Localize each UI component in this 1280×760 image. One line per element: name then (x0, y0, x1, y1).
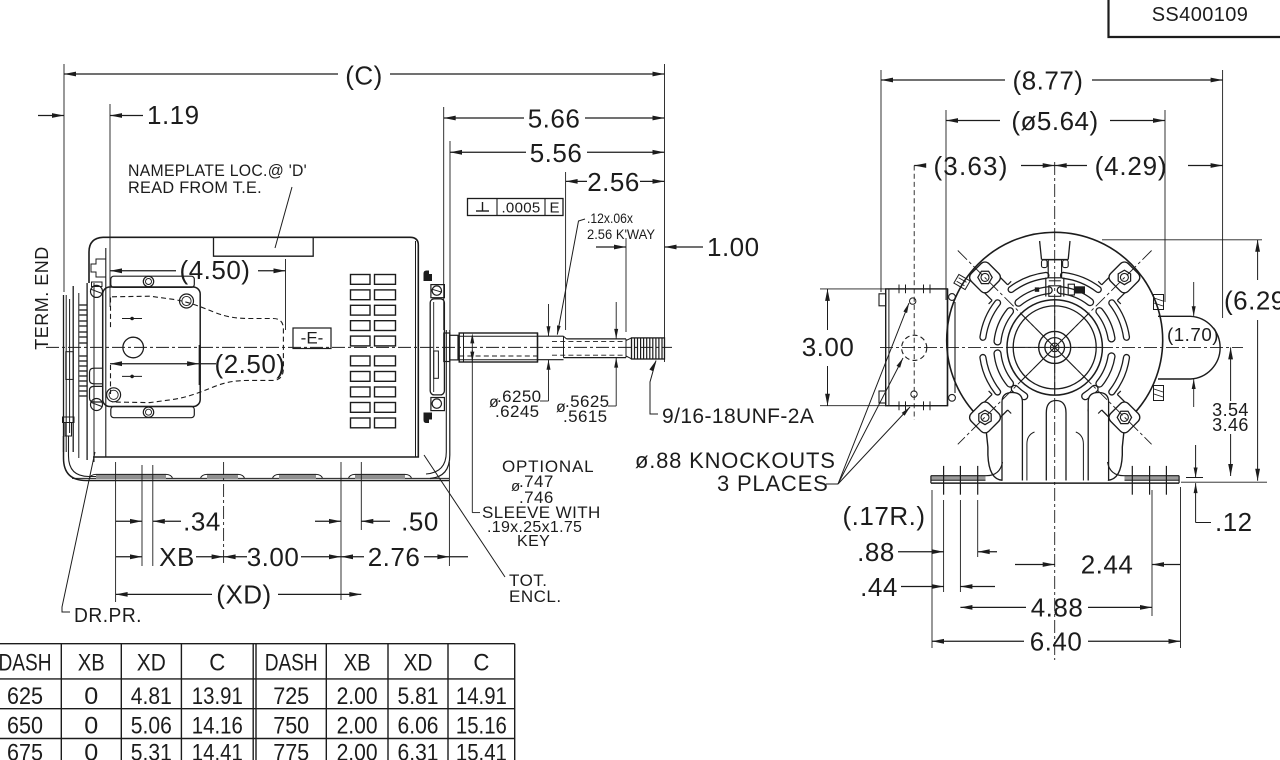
svg-text:0: 0 (84, 713, 98, 740)
svg-text:4.88: 4.88 (1031, 593, 1084, 623)
knockout dashed circle (902, 335, 927, 360)
diagonal centerlines (end view) (880, 162, 1243, 660)
dimension 2.56 (566, 167, 665, 197)
left flat seam of stator band (948, 289, 956, 406)
svg-text:3.00: 3.00 (247, 542, 300, 572)
svg-text:.50: .50 (401, 507, 439, 537)
leader TOT. ENCL. (424, 455, 562, 606)
horizontal centerline of shaft/body (46, 346, 672, 348)
svg-text:-E-: -E- (301, 329, 324, 348)
leader DR.PR. (62, 452, 142, 627)
svg-text:5.31: 5.31 (131, 740, 172, 760)
svg-text:E: E (549, 200, 559, 217)
svg-text:XB: XB (344, 650, 371, 677)
dimension (6.29) (1102, 240, 1280, 482)
svg-text:(C): (C) (345, 61, 383, 91)
band seam screws near boss (1154, 295, 1164, 310)
svg-text:2.56: 2.56 (587, 167, 640, 197)
svg-text:750: 750 (273, 713, 309, 740)
svg-text:4.81: 4.81 (131, 683, 172, 710)
svg-text:15.41: 15.41 (456, 740, 507, 760)
nameplate tab on body top (214, 238, 314, 257)
dimension 1.00 (596, 232, 760, 262)
svg-text:NAMEPLATE LOC.@ 'D': NAMEPLATE LOC.@ 'D' (128, 162, 307, 180)
svg-text:(8.77): (8.77) (1013, 66, 1084, 96)
svg-text:ENCL.: ENCL. (509, 587, 562, 606)
motor body outline (side view) (89, 237, 418, 457)
conduit box (end view) (879, 166, 948, 421)
svg-text:2.00: 2.00 (337, 740, 378, 760)
corner bolt tabs with hex bolts and radial fingers (954, 260, 1142, 435)
svg-text:0: 0 (84, 683, 98, 710)
svg-text:6.31: 6.31 (398, 740, 439, 760)
bottom dims left view: .50 (315, 462, 439, 600)
bearing hub circles (1007, 300, 1102, 395)
base bottom line (931, 482, 1179, 484)
dimension .44 (860, 500, 995, 602)
svg-text:14.16: 14.16 (192, 713, 243, 740)
thread callout 9/16-18UNF-2A (649, 361, 814, 429)
svg-text:(ø5.64): (ø5.64) (1011, 106, 1098, 136)
svg-text:13.91: 13.91 (192, 683, 243, 710)
conduit box (side view) with cover (103, 276, 284, 418)
vent ring bands (end view) (983, 275, 1127, 410)
svg-text:DASH: DASH (265, 650, 318, 677)
svg-text:725: 725 (273, 683, 309, 710)
dimension .88 (857, 500, 997, 592)
bottom dims left view: XB / 3.00 / 2.76 (116, 462, 468, 572)
GD&T feature control frame (468, 199, 564, 217)
svg-text:2.00: 2.00 (337, 683, 378, 710)
svg-text:3.00: 3.00 (802, 332, 855, 362)
feet plates (end view) (931, 462, 1179, 495)
dimension (4.50) (110, 255, 286, 285)
svg-text:.34: .34 (183, 507, 221, 537)
cradle base (side view) (63, 330, 450, 481)
terminal end flange stack (left end) (64, 259, 106, 462)
NAMEPLATE note with leader (128, 162, 307, 248)
keyway note .12x.06x 2.56 K'WAY with leader (557, 210, 656, 335)
svg-text:2.76: 2.76 (368, 542, 421, 572)
svg-text:0: 0 (84, 740, 98, 760)
dimension 5.56 (450, 138, 665, 168)
conduit hole circle (123, 337, 144, 358)
svg-text:3 PLACES: 3 PLACES (717, 471, 829, 496)
svg-text:1.19: 1.19 (147, 100, 200, 130)
shaft keyway section (563, 336, 565, 357)
svg-text:3.46: 3.46 (1212, 415, 1249, 435)
extension lines (left view) (64, 64, 665, 385)
top lifting slot and grease plug (1035, 237, 1085, 297)
svg-text:XD: XD (137, 650, 166, 677)
shaft dia dim arrows and labels (470, 302, 618, 513)
svg-text:2.00: 2.00 (337, 713, 378, 740)
svg-text:.6245: .6245 (495, 402, 540, 421)
shaft transition section (537, 333, 539, 362)
svg-text:(1.70): (1.70) (1167, 325, 1219, 345)
center marks in box (122, 318, 142, 320)
threaded end 9/16-18UNF-2A (625, 339, 627, 358)
svg-text:14.41: 14.41 (192, 740, 243, 760)
svg-text:READ FROM T.E.: READ FROM T.E. (128, 179, 262, 197)
dimension (C) (64, 61, 665, 91)
svg-text:XB: XB (78, 650, 105, 677)
svg-text:.12: .12 (1215, 507, 1253, 537)
shaft hub steps (444, 333, 458, 362)
svg-text:(.17R.): (.17R.) (843, 501, 926, 531)
dimension (3.63) and (4.29) (914, 151, 1222, 181)
box knockout centerline (dashed vertical) (913, 166, 915, 421)
dimension 1.19 (38, 100, 200, 130)
svg-text:.12x.06x: .12x.06x (587, 210, 633, 226)
dimension (1.70) (1167, 282, 1219, 407)
vent slot grid (side view) (351, 275, 396, 428)
svg-text:ø.88 KNOCKOUTS: ø.88 KNOCKOUTS (635, 448, 836, 473)
svg-text:(4.29): (4.29) (1095, 151, 1168, 181)
svg-text:(4.50): (4.50) (180, 255, 251, 285)
extension lines (right view top) (881, 70, 1223, 318)
svg-text:.88: .88 (857, 537, 895, 567)
svg-text:6.40: 6.40 (1030, 627, 1083, 657)
dimension (ø5.64) (946, 106, 1165, 136)
dimension 3.54/3.46 (1212, 347, 1249, 476)
dimension 2.44 (1015, 490, 1180, 616)
svg-text:(6.29: (6.29 (1224, 286, 1280, 316)
svg-text:XB: XB (159, 542, 195, 572)
svg-text:6.06: 6.06 (398, 713, 439, 740)
svg-text:5.81: 5.81 (398, 683, 439, 710)
svg-text:.5615: .5615 (563, 407, 608, 426)
bottom dims left view: .34 (116, 465, 221, 566)
knockouts note and leaders (635, 303, 910, 496)
svg-text:2.56 K'WAY: 2.56 K'WAY (587, 226, 656, 242)
svg-text:9/16-18UNF-2A: 9/16-18UNF-2A (662, 405, 814, 428)
svg-text:KEY: KEY (517, 533, 550, 550)
svg-text:15.16: 15.16 (456, 713, 507, 740)
svg-text:(2.50): (2.50) (215, 349, 286, 379)
svg-text:5.06: 5.06 (131, 713, 172, 740)
svg-text:DR.PR.: DR.PR. (74, 605, 142, 627)
svg-text:14.91: 14.91 (456, 683, 507, 710)
svg-text:675: 675 (7, 740, 43, 760)
key (black) beside slot (1075, 286, 1085, 293)
hub cross lines (1008, 346, 1102, 348)
dimension (8.77) (881, 66, 1223, 96)
drip cover tabs at left edge (90, 368, 103, 402)
title block box SS400109 (1109, 0, 1280, 37)
svg-text:DASH: DASH (0, 650, 52, 677)
knockout center marks (910, 298, 916, 304)
bearing boss (right side, 1.70) (1154, 295, 1221, 401)
svg-text:.0005: .0005 (501, 200, 540, 217)
vertical centerline (end view) (1054, 162, 1056, 400)
shaft with optional sleeve (459, 333, 664, 362)
foot slot ticks (943, 466, 945, 495)
end view outer circle (947, 232, 1163, 417)
dimension 4.88 (960, 593, 1152, 623)
svg-text:C: C (209, 650, 225, 677)
dimension .12 (1186, 445, 1253, 537)
base pad top lines and gray pads (72, 477, 449, 479)
dimension 3.00 (box height) (802, 289, 886, 406)
dimension 5.66 (444, 104, 665, 134)
svg-text:625: 625 (7, 683, 43, 710)
dimension (2.50) (110, 349, 285, 379)
hidden gasket outline (dashed) (110, 298, 112, 395)
svg-text:(3.63): (3.63) (933, 151, 1008, 181)
svg-text:5.56: 5.56 (530, 138, 583, 168)
OPTIONAL sleeve note (472, 457, 600, 550)
band seam screw upper-left (954, 274, 970, 289)
svg-text:1.00: 1.00 (707, 232, 760, 262)
svg-text:SS400109: SS400109 (1152, 4, 1249, 26)
bottom dim left view: (XD) (116, 462, 362, 610)
svg-text:775: 775 (273, 740, 309, 760)
dimension 6.40 (932, 487, 1181, 657)
svg-text:TERM. END: TERM. END (32, 246, 52, 350)
svg-text:2.44: 2.44 (1081, 550, 1134, 580)
datum flag -E- (293, 328, 331, 349)
svg-text:650: 650 (7, 713, 43, 740)
svg-text:(XD): (XD) (216, 580, 271, 610)
svg-text:5.66: 5.66 (528, 104, 581, 134)
dimension table (DASH/XB/XD/C) (0, 644, 515, 760)
horizontal centerline (end view) (880, 346, 1243, 348)
svg-text:XD: XD (404, 650, 433, 677)
svg-text:.44: .44 (860, 572, 898, 602)
svg-text:C: C (473, 650, 489, 677)
pedestal and feet (end view) (984, 393, 1126, 481)
drive end bracket (right end of body) (424, 271, 445, 424)
